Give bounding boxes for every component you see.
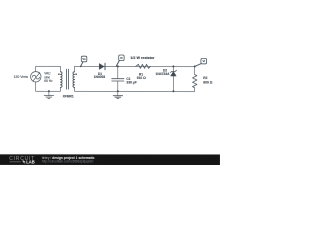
node zener top junction xyxy=(172,65,174,67)
wire source bottom lead xyxy=(35,82,37,91)
svg-text:http://circuitlab.com/c6t96dp8: http://circuitlab.com/c6t96dp8pqk8c xyxy=(42,160,94,164)
node Vs flag xyxy=(80,56,87,67)
node primary ground tap xyxy=(48,90,50,92)
zener diode D2 xyxy=(170,66,176,91)
svg-text:600 Ω: 600 Ω xyxy=(203,80,212,84)
source V1 (VAC sine) xyxy=(31,72,41,82)
node secondary ground junction xyxy=(117,90,119,92)
wire secondary top rail xyxy=(75,65,195,67)
wire source top lead xyxy=(35,66,37,71)
wire secondary bottom rail xyxy=(75,90,195,92)
watermark band xyxy=(0,154,220,165)
svg-text:120 Vrms: 120 Vrms xyxy=(14,75,29,79)
svg-text:XFMR1: XFMR1 xyxy=(63,95,74,99)
label VAC sine 60 Hz xyxy=(44,72,53,83)
transformer XFMR1 xyxy=(58,66,77,91)
svg-text:Vr: Vr xyxy=(120,56,123,60)
svg-text:510 Ω: 510 Ω xyxy=(137,76,146,80)
node Vl flag xyxy=(195,58,207,66)
wire primary left lead down xyxy=(59,66,61,71)
svg-text:LAB: LAB xyxy=(26,160,35,165)
node Vl corner junction xyxy=(194,65,196,67)
svg-text:1/2 W resistor: 1/2 W resistor xyxy=(130,56,155,60)
wire primary top rail xyxy=(36,65,61,67)
svg-text:Vs: Vs xyxy=(82,57,86,61)
resistor R1 xyxy=(136,64,151,68)
ground (primary) xyxy=(44,91,53,98)
resistor R2 xyxy=(192,66,196,91)
wire primary bottom rail xyxy=(36,90,61,92)
svg-text:1N4733A: 1N4733A xyxy=(156,72,171,76)
node Vr flag xyxy=(116,55,124,66)
ground (secondary) xyxy=(113,91,122,98)
diode D1 xyxy=(99,63,105,70)
node zener bottom junction xyxy=(172,90,174,92)
svg-text:330 µF: 330 µF xyxy=(126,81,136,85)
CircuitLab logo xyxy=(9,156,35,164)
svg-text:Vl: Vl xyxy=(202,59,205,63)
node Vr junction xyxy=(117,65,119,67)
svg-text:60 Hz: 60 Hz xyxy=(44,79,53,83)
capacitor C1 xyxy=(112,66,124,91)
svg-text:1N4003: 1N4003 xyxy=(94,75,106,79)
